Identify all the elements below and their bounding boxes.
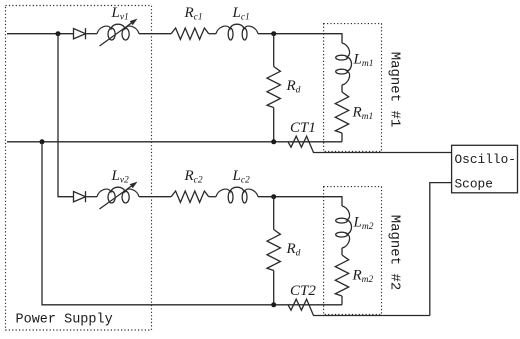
oscilloscope box U1 — [452, 145, 518, 193]
wire Lv1 to Rc1 — [139, 33, 171, 35]
node return junction at Rd — [271, 139, 276, 144]
wire Rc2 to Lc2 — [209, 196, 216, 198]
resistor Rm1 — [335, 92, 348, 133]
diode D2 — [74, 191, 86, 202]
svg-text:Power Supply: Power Supply — [16, 313, 113, 328]
node branch1 junction — [271, 31, 276, 36]
diode D1 — [74, 28, 86, 39]
resistor Rm2 — [335, 255, 348, 296]
wire junction down to Rd bottom — [273, 197, 275, 230]
wire Lc1 to magnet 1 entry — [258, 34, 342, 43]
node return tap junction — [40, 139, 45, 144]
resistor Rc2 — [171, 191, 209, 202]
resistor Rd (top) — [267, 67, 280, 108]
wire Rc1 to Lc1 — [209, 33, 216, 35]
svg-text:Scope: Scope — [455, 177, 493, 192]
wire diode to Lv2 — [86, 196, 98, 198]
wire Lm2 to Rm2 — [341, 248, 343, 255]
wire junction down to Rd — [273, 34, 275, 67]
svg-text:CT1: CT1 — [290, 120, 316, 136]
inductor Lm1 — [336, 43, 352, 85]
inductor Lm2 — [336, 206, 352, 248]
svg-text:CT2: CT2 — [290, 283, 316, 299]
wire Rd bottom to return — [273, 271, 275, 305]
node branch2 junction — [271, 194, 276, 199]
current transformer CT1 — [288, 136, 452, 152]
wire top tap down to branch 2 — [58, 34, 74, 197]
wire Rm1 to return — [341, 133, 343, 142]
magnet 1 dashed box — [324, 24, 382, 152]
wire diode to Lv1 — [86, 33, 98, 35]
wire Rd to return — [273, 108, 275, 142]
inductor Lc2 — [216, 187, 258, 203]
wire Rm2 to bottom return — [341, 296, 343, 305]
inductor Lc1 — [216, 24, 258, 40]
svg-text:Magnet #2: Magnet #2 — [387, 215, 403, 291]
resistor Rc1 — [171, 28, 209, 39]
resistor Rd (bottom) — [267, 230, 280, 271]
node bottom return junction — [271, 302, 276, 307]
node top tap junction — [56, 31, 61, 36]
svg-text:Oscillo-: Oscillo- — [455, 152, 516, 167]
wire return 1 — [7, 141, 342, 143]
wire top supply lead — [7, 33, 74, 35]
magnet 2 dashed box — [324, 187, 382, 315]
current transformer CT2 — [288, 299, 430, 315]
power supply dashed box — [6, 6, 152, 331]
svg-text:Magnet #1: Magnet #1 — [387, 52, 403, 128]
wire CT2 riser to oscilloscope — [430, 183, 452, 316]
wire Lv2 to Rc2 — [139, 196, 171, 198]
variable inductor Lv2 — [97, 182, 139, 209]
wire return tap down to bottom return — [42, 142, 342, 305]
wire Lc2 to magnet 2 entry — [258, 197, 342, 206]
variable inductor Lv1 — [97, 19, 139, 46]
wire Lm1 to Rm1 — [341, 85, 343, 92]
